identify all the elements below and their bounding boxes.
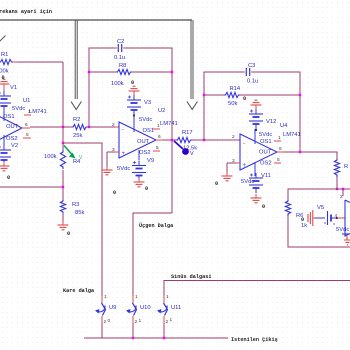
node junction (164,338) [163,337,165,339]
ground under V11 [251,194,266,210]
svg-text:OS2: OS2 [260,161,272,167]
svg-text:V: V [190,151,194,157]
ground under V9 [134,178,149,192]
ground at U2 pin3 [102,166,117,196]
wire output bus [84,323,228,338]
svg-text:Üçgen Dalga: Üçgen Dalga [139,222,173,229]
node junction (204,140) [203,139,205,141]
svg-text:R2: R2 [73,117,80,123]
svg-text:5Vdc: 5Vdc [12,106,25,112]
resistor R14 [224,86,241,107]
node junction (300,95) [299,94,301,96]
svg-text:5Vdc: 5Vdc [117,166,130,172]
resistor R4 [44,150,81,169]
resistor R6 [285,200,307,229]
source V12 [249,109,276,131]
node junction (63,127) [62,126,64,128]
ground (clipped, right edge) [342,234,350,245]
svg-text:0: 0 [108,318,111,324]
resistor R3 [60,200,84,216]
wire feedback box left/top/right [89,48,172,213]
source V3 [127,95,151,117]
svg-text:6: 6 [279,146,282,152]
svg-text:U1: U1 [23,98,30,104]
ground at U4 pin3 [215,172,233,187]
wire U4 out to right [284,152,337,159]
svg-text:0: 0 [113,190,116,196]
wire R1 to node column [17,61,63,63]
svg-text:1: 1 [135,294,138,300]
svg-text:5Vdc: 5Vdc [259,132,272,138]
svg-text:R: R [344,164,348,170]
svg-text:0: 0 [145,186,148,192]
op-amp U? (clipped at right edge) [340,188,350,236]
svg-text:5: 5 [156,145,159,151]
svg-text:U2: U2 [158,108,165,114]
svg-text:U4: U4 [280,123,288,129]
node junction (89,127) [88,126,90,128]
resistor R2 [63,117,87,139]
wire tap to bottom-left [0,186,63,188]
ground under V2 [0,162,10,181]
svg-text:OS1: OS1 [260,139,272,145]
svg-text:R8: R8 [119,63,126,69]
svg-text:OS2: OS2 [139,150,151,156]
svg-text:1: 1 [139,318,142,324]
wire sine output to U11 [164,281,350,297]
svg-text:5Vdc: 5Vdc [241,179,254,185]
wire U1 out to node [30,126,63,128]
switch U10 [126,294,151,325]
svg-text:0: 0 [215,181,218,187]
svg-text:1: 1 [104,294,107,300]
svg-text:Istenilen Çikiş: Istenilen Çikiş [231,337,278,343]
node junction (204,95) [203,94,205,96]
source V5 [315,205,338,225]
svg-text:LM741: LM741 [29,109,47,115]
ground above V3 (flipped) [129,80,140,95]
svg-text:OUT: OUT [259,150,272,156]
svg-text:OS1: OS1 [3,114,15,120]
svg-text:OUT: OUT [6,124,19,130]
svg-text:4: 4 [335,213,338,219]
node junction (300,152) [299,151,301,153]
svg-text:5Vdc: 5Vdc [336,227,349,233]
svg-text:C2: C2 [117,39,124,45]
svg-text:2: 2 [166,319,169,325]
wire R2 to U2 inverting input [87,126,115,128]
source V1 [0,85,17,111]
annotation line (top horizontal) [0,19,192,21]
voltage probe on triangle node [174,141,194,157]
svg-text:U9: U9 [109,305,116,311]
svg-text:5: 5 [277,157,280,163]
svg-text:0: 0 [131,80,134,86]
switch U11 [157,294,181,325]
ground rotated (left-pointing) in V5 box [308,210,316,226]
node junction (63,187) [62,186,64,188]
wire R8 row [89,71,172,73]
svg-text:C3: C3 [248,63,255,69]
svg-text:0: 0 [7,175,10,181]
op-amp U1 [0,98,47,148]
svg-text:LM741: LM741 [160,121,178,127]
svg-text:6: 6 [25,122,28,128]
svg-text:U10: U10 [140,305,151,311]
svg-text:2: 2 [112,122,115,128]
source V9 [117,158,154,181]
svg-text:1: 1 [166,294,169,300]
svg-text:+: + [122,151,126,157]
svg-text:0.1u: 0.1u [114,55,125,61]
svg-text:2: 2 [232,134,235,140]
wire R14 row [204,94,300,96]
op-amp U2 [112,108,178,160]
source V2 [0,143,18,165]
svg-text:25k: 25k [73,133,82,139]
svg-text:50k: 50k [228,101,237,107]
svg-text:-: - [243,141,245,147]
wire C3 feedback box [204,72,300,152]
svg-text:85k: 85k [75,210,84,216]
svg-text:V5: V5 [317,205,324,211]
svg-text:V1: V1 [10,85,17,91]
annotation arrow 1 (down to R2) [71,20,81,110]
ground above V1 (flipped) [0,75,10,88]
svg-text:1: 1 [170,317,173,323]
svg-text:5Vdc: 5Vdc [139,117,152,123]
resistor R10 [334,159,348,177]
svg-text:OUT: OUT [137,139,150,145]
svg-text:Sinüs dalgasi: Sinüs dalgasi [171,274,211,280]
wire square-wave tap down to U9 [63,143,102,296]
resistor R1 [0,52,17,75]
wire triangle tap down to U10 [133,213,172,296]
svg-text:2: 2 [104,319,107,325]
ground above V12 (flipped) [243,96,262,109]
svg-text:OS1: OS1 [143,128,155,134]
svg-text:0: 0 [67,231,70,237]
svg-text:V2: V2 [11,143,18,149]
node junction (133,338) [132,337,134,339]
svg-text:6: 6 [158,134,161,140]
svg-text:OS2: OS2 [6,136,18,142]
annotation arrow tail (top-left diagonal) [0,36,6,43]
svg-text:V12: V12 [266,119,276,125]
svg-text:R17: R17 [182,130,193,136]
svg-text:0: 0 [243,96,246,102]
wire U2 out to R17 [163,139,176,141]
svg-text:100k: 100k [44,154,57,160]
wire V5 box outline [288,189,350,247]
svg-text:R1: R1 [1,52,8,58]
wire R17 to U4 box [192,139,240,141]
svg-text:LM741: LM741 [283,132,301,138]
svg-text:0: 0 [2,75,5,81]
svg-text:Kare dalga: Kare dalga [63,288,94,294]
probe marker on R4 (green arrow) [64,146,83,162]
svg-text:V9: V9 [147,158,154,164]
wire U2 pin3 to ground [107,152,119,167]
svg-text:5: 5 [26,132,29,138]
svg-text:U11: U11 [171,305,181,311]
svg-text:1k: 1k [301,223,307,229]
node junction (89,72) [88,71,90,73]
capacitor C3 [243,63,258,85]
svg-text:Frekans ayari için: Frekans ayari için [0,9,52,15]
wire U4 pin3 to ground [227,163,240,173]
svg-text:V3: V3 [144,100,151,106]
svg-text:-: - [122,127,124,133]
resistor R17 [176,130,197,152]
svg-text:2: 2 [135,319,138,325]
svg-text:100k: 100k [111,81,124,87]
svg-text:R3: R3 [72,202,79,208]
svg-text:0: 0 [262,204,265,210]
wire R10 down to box [336,177,338,189]
annotation arrow 2 (down to R17) [187,20,197,110]
op-amp U4 [232,123,301,176]
capacitor C2 [114,39,125,61]
svg-text:+: + [243,163,247,169]
node junction (172,140) [171,139,173,141]
node junction (63,143) [62,142,64,144]
source V11 [241,173,271,193]
resistor R8 [111,63,132,87]
svg-text:R14: R14 [230,86,241,92]
node junction (337,189) [336,188,338,190]
ground under R3 [58,221,71,237]
svg-text:1: 1 [278,135,281,141]
node junction (172,72) [171,71,173,73]
svg-text:1: 1 [28,109,31,115]
svg-text:1: 1 [157,123,160,129]
wire main left vertical [62,62,64,221]
switch U9 [95,294,116,325]
svg-text:100k: 100k [0,69,9,75]
svg-text:0.1u: 0.1u [247,79,258,85]
wire V5 to clipped stage [337,217,345,219]
